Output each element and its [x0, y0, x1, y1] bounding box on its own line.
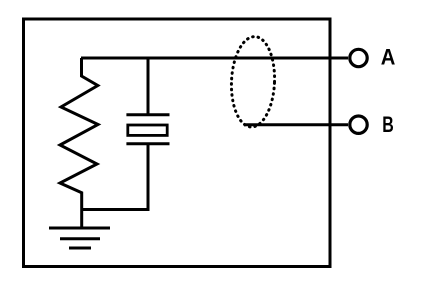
- terminal A: [350, 49, 367, 66]
- terminal B: [350, 116, 367, 133]
- crystal Y1 body: [128, 125, 167, 135]
- wire: resistor bottom to crystal bottom: [82, 144, 148, 210]
- crystal Y1 bottom plate: [126, 142, 169, 145]
- enclosure box: [24, 19, 331, 267]
- svg-text:A: A: [381, 44, 396, 69]
- crystal Y1 top lead: [147, 58, 150, 115]
- wire: top node to terminal A: [81, 57, 348, 60]
- crystal Y1 top plate: [126, 113, 169, 116]
- svg-text:B: B: [382, 112, 394, 137]
- dotted coupling loop: [230, 36, 277, 128]
- resistor R1: [60, 58, 98, 228]
- wire: loop to terminal B: [244, 123, 348, 126]
- ground: [49, 228, 110, 248]
